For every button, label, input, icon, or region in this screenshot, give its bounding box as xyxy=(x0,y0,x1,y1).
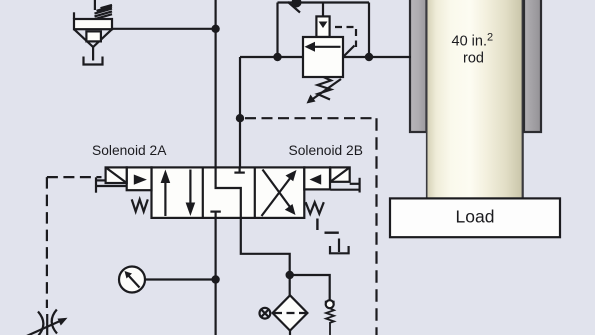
node top junction with stub xyxy=(288,2,300,13)
relief pilot dashed loop xyxy=(335,27,356,47)
svg-text:rod: rod xyxy=(463,51,484,67)
spring hatch xyxy=(95,5,113,19)
solenoid 2B coil xyxy=(330,167,359,192)
wire stem top xyxy=(94,0,96,10)
pilot box left xyxy=(127,167,152,190)
rod left edge xyxy=(426,0,428,199)
dashed pilot to solenoid area xyxy=(47,176,102,178)
funnel cone xyxy=(74,29,112,47)
pilot dashed line horizontal xyxy=(245,117,377,119)
cylinder barrel right wall xyxy=(524,0,541,132)
cylinder barrel left wall xyxy=(410,0,427,132)
breather cap assembly top-left xyxy=(74,0,112,65)
spring right xyxy=(306,202,324,214)
drain dashes xyxy=(316,219,318,231)
pilot dashed line vertical right xyxy=(375,118,377,335)
relief valve spring xyxy=(318,77,332,100)
body box xyxy=(74,19,112,29)
funnel inner box xyxy=(86,31,101,41)
load box xyxy=(390,198,560,237)
center position Z passage xyxy=(216,167,241,218)
pilot box right xyxy=(304,167,330,189)
filter outlet wire xyxy=(289,331,291,335)
cylinder rod xyxy=(427,0,524,199)
valve divider right xyxy=(254,167,256,218)
wire relief right to cylinder xyxy=(343,56,411,58)
filter element dashed xyxy=(274,312,306,314)
flow control arcs xyxy=(38,312,43,335)
position1 up arrow xyxy=(164,178,166,216)
wire main vertical lower xyxy=(215,217,217,335)
position1 down arrow xyxy=(189,170,191,208)
wire right bypass vertical xyxy=(368,3,370,58)
dashed vertical left xyxy=(46,177,48,308)
svg-text:Solenoid 2A: Solenoid 2A xyxy=(92,143,167,158)
drain tank xyxy=(330,246,349,253)
valve V1 body xyxy=(152,167,305,218)
wire relief left xyxy=(240,56,303,58)
flow control solid stem xyxy=(46,314,48,335)
wire pressure line down xyxy=(239,57,241,168)
position3 cross arrow down xyxy=(263,170,291,208)
tank xyxy=(84,57,103,65)
solenoid 2A coil xyxy=(96,167,127,192)
relief adjust arrow xyxy=(312,79,341,100)
check valve spring xyxy=(326,308,334,335)
wire main vertical upper xyxy=(215,0,217,168)
center blocked port top xyxy=(239,167,241,172)
position3 cross arrow up xyxy=(262,177,292,216)
spring left xyxy=(132,199,148,211)
filter F1 diamond xyxy=(273,295,308,330)
node pilot takeoff xyxy=(236,114,244,122)
relief valve U1 body xyxy=(303,37,343,77)
gauge PG1 xyxy=(145,278,216,280)
rod right edge xyxy=(522,0,524,199)
node filter junction xyxy=(286,271,294,279)
wire to check valve xyxy=(290,275,330,301)
relief valve pilot check box xyxy=(316,3,329,38)
wire valve outlet elbow xyxy=(241,218,290,296)
relief pilot diagonal xyxy=(344,46,355,57)
node right bypass junction xyxy=(365,53,373,61)
body left lip xyxy=(73,12,75,19)
wire breather branch xyxy=(112,28,216,30)
node breather junction xyxy=(211,25,219,33)
svg-text:40 in.2: 40 in.2 xyxy=(452,31,494,49)
relief valve top bypass line xyxy=(278,1,370,3)
center blocked port bottom xyxy=(215,212,217,218)
drain stem xyxy=(92,47,94,61)
check valve ball xyxy=(325,301,335,303)
svg-text:Load: Load xyxy=(456,207,495,227)
valve divider left xyxy=(202,167,204,218)
wire left bypass vertical xyxy=(276,3,278,58)
clog indicator circle-x xyxy=(260,308,271,319)
flow control arrow xyxy=(20,321,60,335)
svg-text:Solenoid 2B: Solenoid 2B xyxy=(289,143,363,158)
node left bypass junction xyxy=(273,53,281,61)
node gauge junction xyxy=(211,275,219,283)
